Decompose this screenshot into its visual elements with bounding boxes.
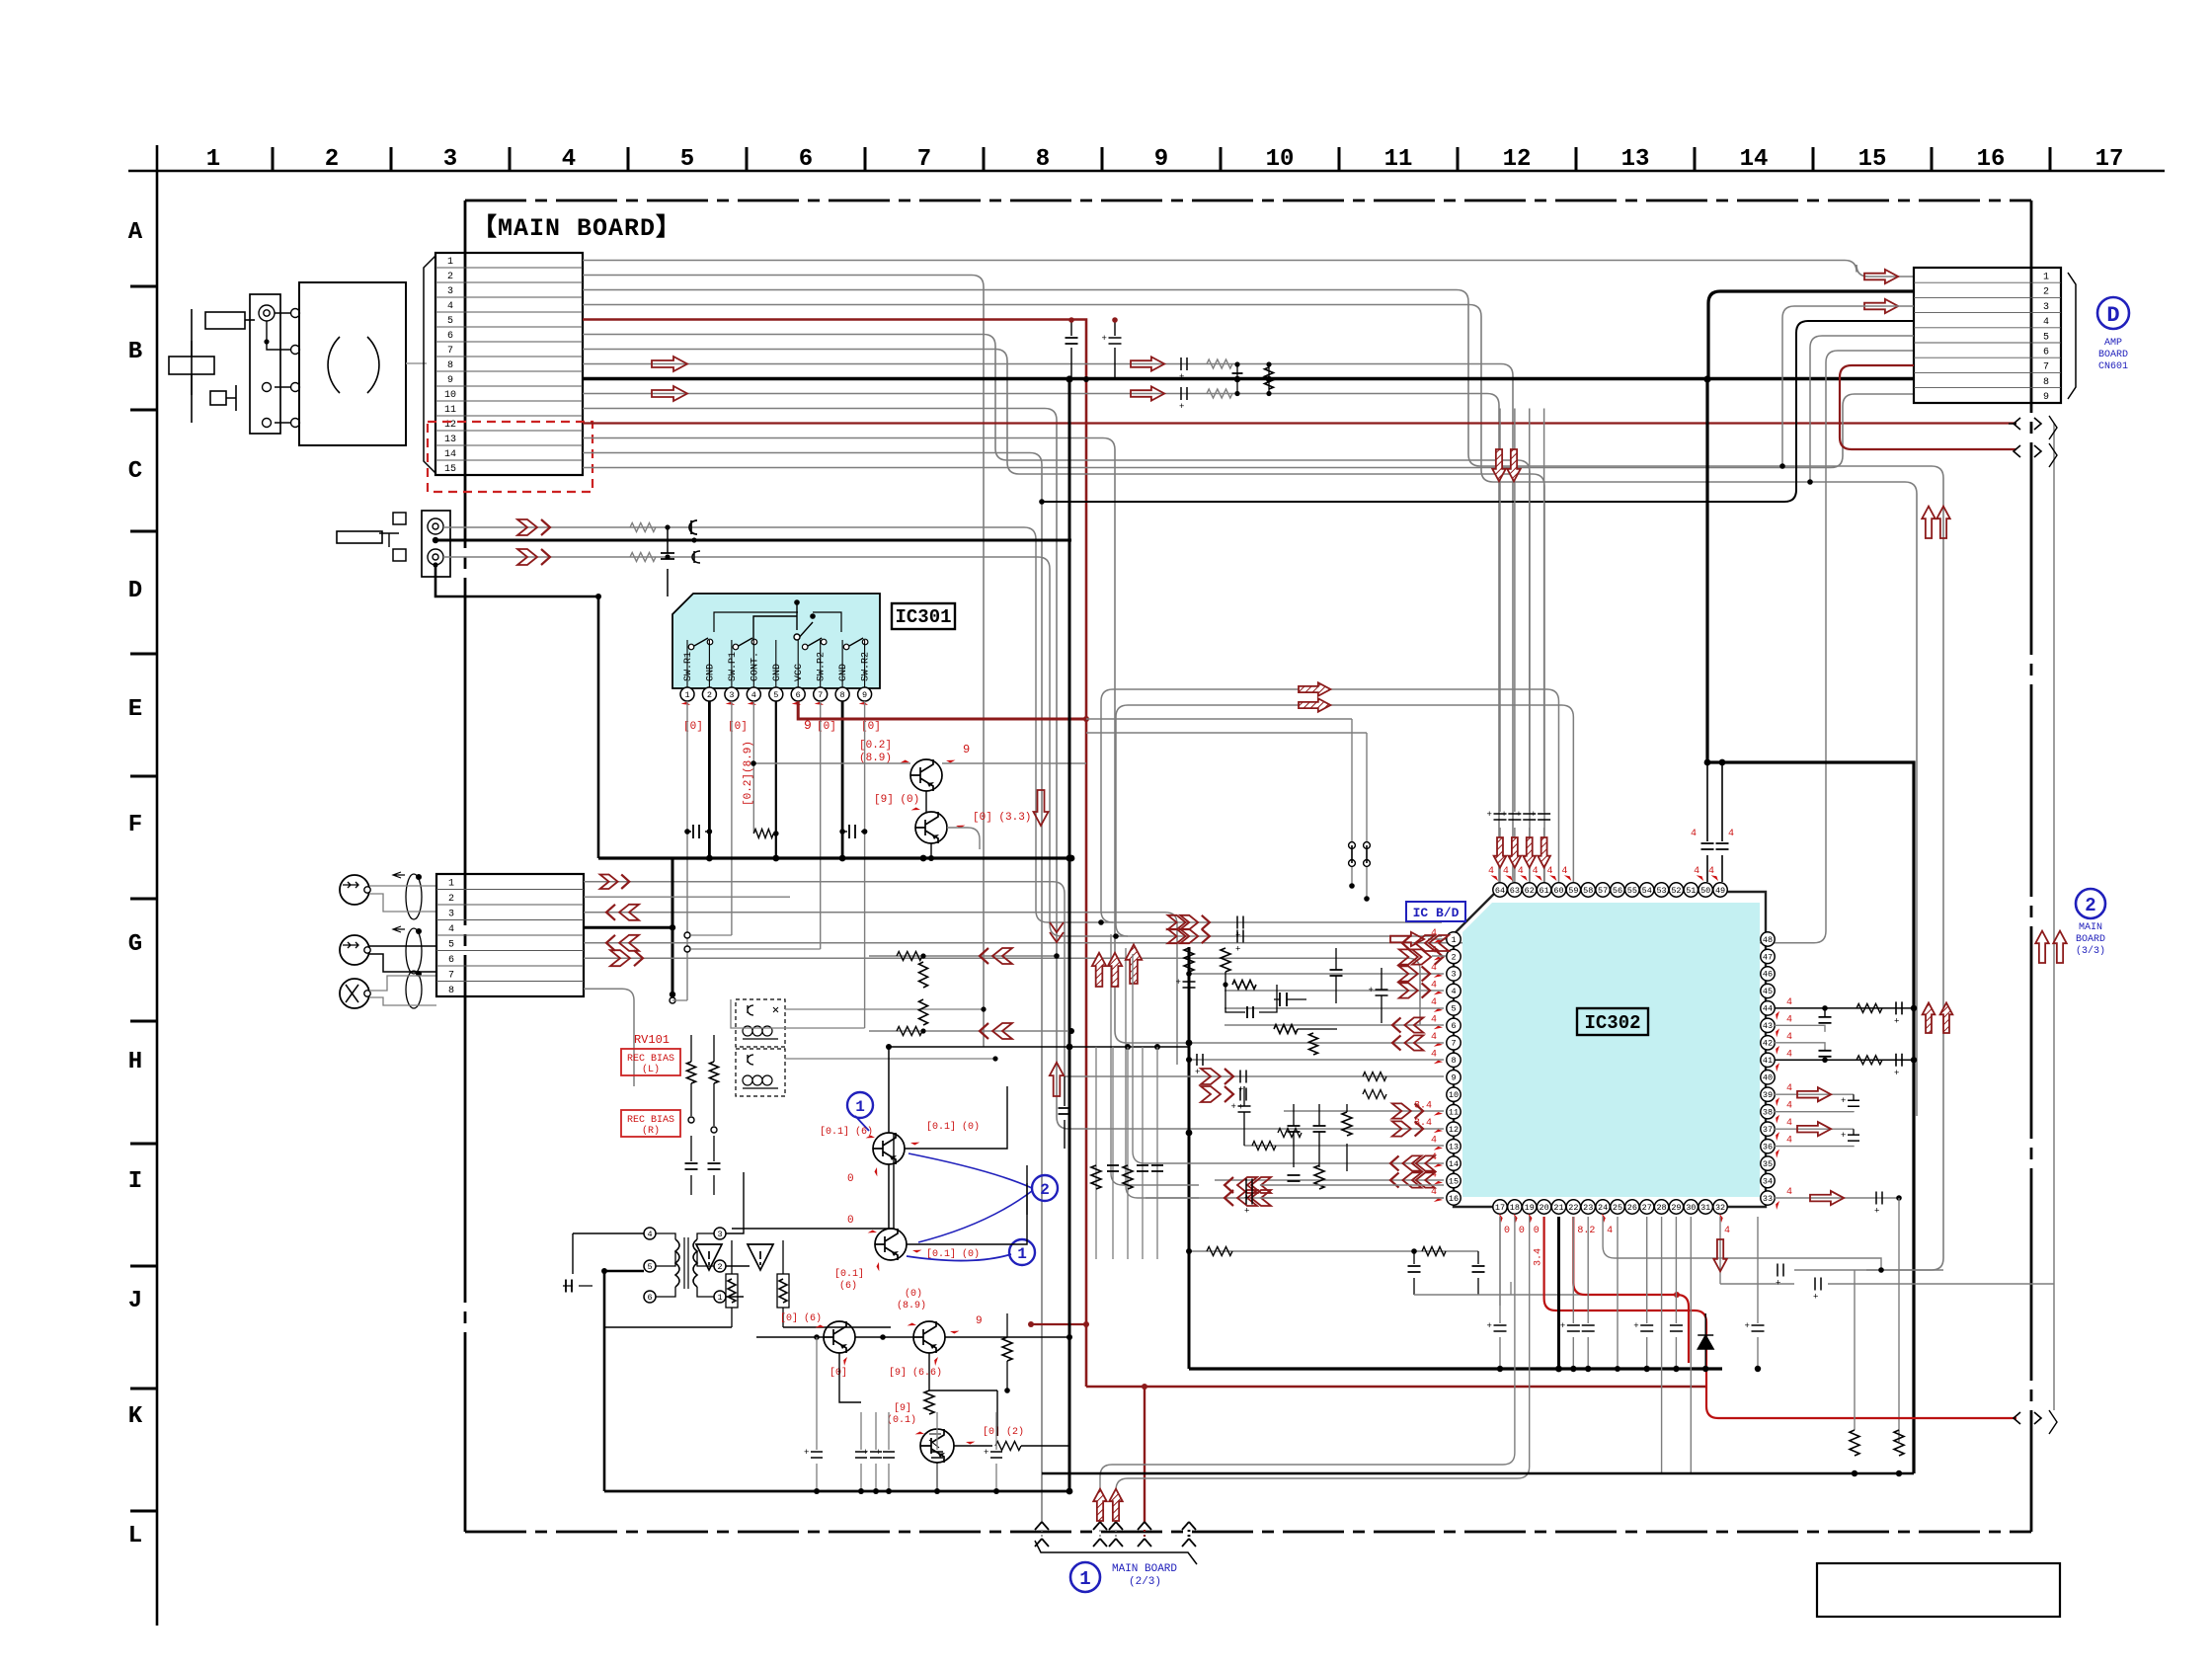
head ground drop bbox=[435, 565, 598, 858]
left chevrons row G right side bbox=[1402, 935, 1411, 951]
gray drops pins 25,28,30 bbox=[1617, 1217, 1619, 1369]
left network resistors/caps cluster rows G-H bbox=[1184, 948, 1194, 972]
red hatched up arrows at border bbox=[1093, 1489, 1107, 1521]
svg-text:A: A bbox=[128, 219, 143, 246]
svg-text:D: D bbox=[128, 578, 142, 604]
svg-text:4: 4 bbox=[1431, 1187, 1437, 1198]
thick vertical pin21 to ground bus bbox=[1557, 1217, 1560, 1369]
svg-text:3: 3 bbox=[447, 286, 453, 297]
caps mid cluster bbox=[1280, 993, 1287, 1006]
svg-text:+: + bbox=[1487, 810, 1492, 820]
svg-text:[0.1]: [0.1] bbox=[834, 1268, 864, 1280]
red wire into CN601 pin7 from edge link bbox=[1840, 365, 2016, 449]
board edge link symbols (AMP pin7 net) bbox=[2014, 445, 2041, 457]
pin33 arrow + cap to gray riser bbox=[1775, 1197, 1899, 1199]
svg-text:46: 46 bbox=[1763, 970, 1773, 980]
svg-text:+: + bbox=[1179, 372, 1184, 382]
T301 right connections bbox=[726, 1172, 750, 1297]
transistor Q1 upper bbox=[873, 1133, 905, 1164]
ruler column numbers bbox=[206, 146, 2124, 173]
svg-text:[0]: [0] bbox=[817, 721, 836, 733]
svg-text:[0] (2): [0] (2) bbox=[983, 1426, 1024, 1438]
svg-text:(3/3): (3/3) bbox=[2076, 945, 2105, 957]
left chevron arrows going to bottom loop bbox=[1224, 1177, 1233, 1193]
svg-text:[0.2]: [0.2] bbox=[859, 740, 892, 752]
lower right ground bus bbox=[1042, 1472, 1914, 1475]
IC301 pin value annotations (red) bbox=[681, 700, 690, 709]
hatched up arrows G row bbox=[1092, 953, 1106, 987]
shield cable symbol 2 bbox=[406, 928, 422, 974]
ruler row ticks bbox=[130, 286, 157, 1511]
wire CN pin10 to IC302 pin64 riser bbox=[583, 394, 1499, 883]
hatched right arrows on F-row lines bbox=[1299, 682, 1330, 696]
transistor Q4 bbox=[913, 1321, 945, 1353]
svg-text:(0): (0) bbox=[905, 1288, 922, 1300]
svg-text:+: + bbox=[804, 1448, 809, 1458]
cassette mechanism: erase head symbol bbox=[191, 309, 193, 423]
svg-text:7: 7 bbox=[2043, 362, 2049, 373]
IC302 red pin voltage marks top bbox=[1488, 866, 1718, 883]
feedback loop wires left of IC302 bbox=[1111, 934, 1199, 1185]
ruler column ticks bbox=[273, 147, 2050, 171]
svg-text:22: 22 bbox=[1568, 1203, 1578, 1213]
I-row network into pins 11-16 bbox=[1284, 1110, 1444, 1112]
svg-text:29: 29 bbox=[1671, 1203, 1681, 1213]
IC301 VCC red feed bbox=[798, 701, 1086, 719]
pin39 arrow + cap to pin38 bbox=[1775, 1093, 1854, 1095]
svg-text:[0.1] (0): [0.1] (0) bbox=[926, 1248, 980, 1260]
svg-text:4: 4 bbox=[1724, 1226, 1730, 1236]
transistor Q302 (digital) bbox=[915, 812, 947, 843]
svg-text:6: 6 bbox=[799, 146, 813, 173]
svg-text:4: 4 bbox=[647, 1230, 652, 1239]
signal arrow on pin8 wire bbox=[652, 357, 687, 371]
svg-text:15: 15 bbox=[1858, 146, 1887, 173]
J-row RC ladder left of IC302 bbox=[1189, 1250, 1478, 1252]
svg-text:4: 4 bbox=[1786, 1083, 1792, 1094]
bias trimmers bbox=[687, 1062, 696, 1083]
svg-text:[0] (3.3): [0] (3.3) bbox=[973, 812, 1031, 824]
wire CN pin15 rising to AMP pin9 bbox=[583, 394, 1914, 468]
svg-text:4: 4 bbox=[1431, 1136, 1437, 1147]
svg-text:1: 1 bbox=[1017, 1245, 1027, 1263]
edge link for bright red net bbox=[2014, 1412, 2041, 1424]
svg-text:AMP: AMP bbox=[2104, 338, 2122, 349]
svg-text:34: 34 bbox=[1763, 1176, 1773, 1186]
vertical rail column right of block bbox=[1095, 1047, 1097, 1259]
svg-text:9: 9 bbox=[2043, 392, 2049, 403]
svg-text:5: 5 bbox=[2043, 332, 2049, 343]
svg-text:9: 9 bbox=[862, 690, 867, 700]
svg-text:2: 2 bbox=[2043, 287, 2049, 298]
8pin wires right bbox=[584, 882, 1065, 1076]
svg-text:[0.1] (0): [0.1] (0) bbox=[926, 1121, 980, 1133]
svg-text:7: 7 bbox=[447, 346, 453, 357]
svg-text:4: 4 bbox=[1431, 1049, 1437, 1060]
far right vertical bracket line bbox=[2053, 424, 2055, 1410]
svg-text:55: 55 bbox=[1627, 886, 1637, 896]
svg-text:37: 37 bbox=[1763, 1125, 1773, 1135]
svg-text:[0]: [0] bbox=[829, 1367, 847, 1379]
svg-text:32: 32 bbox=[1715, 1203, 1725, 1213]
svg-text:18: 18 bbox=[1510, 1203, 1520, 1213]
connector CN pin numbers bbox=[444, 257, 456, 475]
svg-text:4: 4 bbox=[751, 690, 756, 700]
svg-text:[0.1] (6): [0.1] (6) bbox=[820, 1126, 873, 1138]
red dashed service box around pins 12-15 bbox=[428, 422, 592, 492]
svg-text:15: 15 bbox=[444, 464, 456, 475]
svg-text:4: 4 bbox=[448, 924, 454, 935]
IC302 top pins 64..49 bbox=[1493, 883, 1727, 897]
svg-text:1: 1 bbox=[684, 690, 689, 700]
svg-text:IC301: IC301 bbox=[895, 606, 951, 628]
svg-text:5: 5 bbox=[1451, 1004, 1456, 1014]
svg-text:43: 43 bbox=[1763, 1021, 1773, 1031]
svg-text:42: 42 bbox=[1763, 1039, 1773, 1049]
svg-text:51: 51 bbox=[1686, 886, 1696, 896]
svg-text:+: + bbox=[984, 1448, 988, 1458]
svg-text:60: 60 bbox=[1553, 886, 1563, 896]
main board dash-dot border bbox=[465, 199, 2031, 202]
head connector left stubs bbox=[393, 513, 406, 524]
svg-text:13: 13 bbox=[444, 435, 456, 445]
svg-text:CONT.: CONT. bbox=[750, 652, 760, 681]
gray drop pin24 bbox=[1603, 1217, 1881, 1270]
cap pins 42-41 bbox=[1775, 1043, 1825, 1051]
svg-text:BOARD: BOARD bbox=[2098, 350, 2128, 360]
svg-text:+: + bbox=[1841, 1131, 1846, 1141]
svg-text:2: 2 bbox=[448, 894, 454, 905]
svg-text:9: 9 bbox=[963, 743, 970, 756]
blue circled 2 + MAIN BOARD (3/3) bbox=[2076, 889, 2105, 918]
svg-text:4: 4 bbox=[447, 301, 453, 312]
up arrows near right border G row bbox=[2053, 931, 2067, 963]
svg-text:REC BIAS: REC BIAS bbox=[627, 1115, 674, 1126]
hatched down arrows above IC302 pins 64-61 bbox=[1494, 837, 1507, 868]
svg-text:4: 4 bbox=[1431, 1014, 1437, 1025]
wire motor to CN bbox=[406, 362, 427, 364]
transformer T301 bbox=[675, 1239, 679, 1287]
surrounding wires Q1/Q2 block bbox=[889, 1047, 1189, 1133]
svg-text:+: + bbox=[1231, 1102, 1236, 1112]
svg-text:2: 2 bbox=[707, 690, 712, 700]
svg-text:2: 2 bbox=[717, 1262, 722, 1272]
IC302 ground bus bbox=[1189, 1367, 1722, 1370]
svg-text:6: 6 bbox=[1451, 1021, 1456, 1031]
F-row ground bus bbox=[598, 856, 1071, 859]
svg-text:9: 9 bbox=[447, 375, 453, 386]
AMP board connector CN601 bbox=[1914, 268, 2061, 403]
cap to bus from upper head wire bbox=[667, 527, 669, 596]
IC302 red pin voltage marks bottom bbox=[1496, 1214, 1730, 1266]
svg-text:(L): (L) bbox=[642, 1064, 660, 1075]
gray H line under IC302 w/ cap bbox=[1794, 1269, 1943, 1271]
svg-text:4: 4 bbox=[1691, 829, 1697, 839]
svg-text:【MAIN BOARD】: 【MAIN BOARD】 bbox=[472, 213, 681, 243]
RCA jack (unused, crossed) bbox=[340, 979, 369, 1008]
resistors to lower bus bbox=[1854, 1270, 1856, 1430]
bottom-left block frame wires bbox=[732, 1133, 894, 1229]
svg-text:33: 33 bbox=[1763, 1194, 1773, 1204]
svg-text:+: + bbox=[1776, 1279, 1780, 1289]
svg-text:VCC: VCC bbox=[794, 664, 805, 681]
svg-text:+: + bbox=[863, 1448, 868, 1458]
svg-text:GND: GND bbox=[705, 664, 716, 681]
svg-text:44: 44 bbox=[1763, 1004, 1773, 1014]
svg-text:14: 14 bbox=[444, 449, 456, 460]
blue D circle + AMP BOARD CN601 label bbox=[2097, 297, 2129, 329]
svg-text:4: 4 bbox=[1607, 1226, 1613, 1236]
peak filter transformer T2 (dashed) bbox=[736, 1049, 785, 1096]
shield cable symbol 3 bbox=[406, 971, 422, 1008]
svg-text:D: D bbox=[2106, 303, 2119, 328]
svg-text:+: + bbox=[1745, 1321, 1750, 1331]
board edge link symbols (CN pin12 net) bbox=[2009, 423, 2016, 425]
gray drop pin32 + down arrow bbox=[1719, 1217, 1721, 1284]
svg-text:+: + bbox=[1516, 810, 1521, 820]
RC network on head wires col6 bbox=[630, 523, 656, 532]
svg-text:SW.R2: SW.R2 bbox=[861, 652, 872, 681]
svg-text:4: 4 bbox=[1728, 829, 1734, 839]
svg-text:16: 16 bbox=[1977, 146, 2006, 173]
signal arrows on head wires bbox=[517, 519, 537, 535]
svg-text:CN601: CN601 bbox=[2098, 361, 2128, 372]
svg-text:MAIN: MAIN bbox=[2079, 922, 2102, 933]
warning triangle 1 bbox=[696, 1244, 722, 1270]
wire CN pin12 (dark red) to board edge connector bbox=[583, 422, 2016, 424]
junction dots on head wires bbox=[595, 594, 601, 599]
wire CN pin1 to AMP CN601 pin1 bbox=[583, 261, 1914, 278]
svg-text:7: 7 bbox=[818, 690, 823, 700]
svg-text:58: 58 bbox=[1583, 886, 1593, 896]
svg-text:B: B bbox=[128, 339, 142, 365]
svg-text:+: + bbox=[1894, 1016, 1899, 1026]
svg-text:2: 2 bbox=[447, 272, 453, 282]
head connector body bbox=[422, 511, 450, 577]
svg-text:2: 2 bbox=[325, 146, 339, 173]
svg-text:0: 0 bbox=[1519, 1226, 1525, 1236]
svg-text:10: 10 bbox=[444, 390, 456, 401]
svg-text:+: + bbox=[1813, 1293, 1818, 1303]
bright red net from IC302 pins 20/22 bbox=[1544, 1217, 2016, 1418]
pin44 RC to spine bbox=[1775, 1007, 1914, 1009]
svg-text:(R): (R) bbox=[642, 1125, 660, 1137]
svg-text:1: 1 bbox=[447, 257, 453, 268]
svg-text:+: + bbox=[1244, 1207, 1249, 1217]
svg-text:C: C bbox=[128, 458, 142, 485]
svg-text:16: 16 bbox=[1449, 1194, 1459, 1204]
wires into IC302 pins 60,59 from F-row lines bbox=[1101, 689, 1558, 911]
8pin pin4 thick to riser bbox=[584, 858, 672, 927]
outline up arrow on x1070 bbox=[1050, 1063, 1064, 1096]
svg-text:0: 0 bbox=[1504, 1226, 1510, 1236]
svg-text:39: 39 bbox=[1763, 1090, 1773, 1100]
svg-text:SW.P1: SW.P1 bbox=[728, 652, 739, 681]
RCA jack LINE IN R bbox=[340, 935, 369, 965]
svg-text:19: 19 bbox=[1525, 1203, 1535, 1213]
red vertical to bottom border bbox=[1144, 1387, 1145, 1522]
svg-text:+: + bbox=[1841, 1096, 1846, 1106]
wire CN pin14 down to board edge bbox=[583, 453, 1042, 1523]
svg-text:0: 0 bbox=[847, 1173, 854, 1185]
svg-text:[0]: [0] bbox=[683, 721, 703, 733]
hatched down arrows on risers row C bbox=[1492, 449, 1506, 481]
svg-text:REC BIAS: REC BIAS bbox=[627, 1054, 674, 1065]
IC302 right pins 48..33 bbox=[1761, 932, 1775, 1205]
svg-text:3: 3 bbox=[448, 910, 454, 920]
svg-text:6: 6 bbox=[796, 690, 801, 700]
svg-text:6: 6 bbox=[647, 1293, 652, 1303]
svg-text:SW.P2: SW.P2 bbox=[817, 652, 828, 681]
IC301 pin wires down bbox=[686, 701, 688, 1000]
dark red vertical x1100 junction dots bbox=[1083, 716, 1089, 722]
black line row D to AMP pin4 bbox=[1042, 321, 1914, 502]
svg-text:[9] (6.6): [9] (6.6) bbox=[889, 1367, 942, 1379]
wire into CN601 pin2 (thick from bus riser) bbox=[1708, 291, 1914, 379]
pin41 RC to spine bbox=[1775, 1059, 1914, 1061]
svg-text:SW.R1: SW.R1 bbox=[683, 652, 694, 681]
svg-text:3: 3 bbox=[729, 690, 734, 700]
svg-text:1: 1 bbox=[1079, 1568, 1090, 1590]
svg-text:H: H bbox=[128, 1049, 142, 1075]
wire CN pin11 descending in bundle bbox=[583, 409, 1444, 1130]
ruler left line bbox=[156, 145, 159, 1626]
svg-text:+: + bbox=[1501, 810, 1506, 820]
svg-text:13: 13 bbox=[1621, 146, 1650, 173]
gray line row G to IC302 area bbox=[584, 896, 790, 898]
boxed resistors (fusible) bbox=[726, 1274, 738, 1308]
svg-text:52: 52 bbox=[1671, 886, 1681, 896]
svg-text:BOARD: BOARD bbox=[2076, 934, 2105, 945]
vertical RC bridging rows B-C bbox=[1236, 364, 1238, 393]
svg-text:59: 59 bbox=[1568, 886, 1578, 896]
svg-text:4: 4 bbox=[1786, 1014, 1792, 1025]
IC B/D label bbox=[1406, 902, 1465, 921]
svg-text:14: 14 bbox=[1740, 146, 1769, 173]
svg-text:9: 9 bbox=[976, 1315, 983, 1327]
bottom brace bbox=[1035, 1541, 1197, 1564]
REC BIAS (L) adjust box bbox=[621, 1049, 680, 1075]
resistor between IC301 pins4-5 bbox=[753, 830, 773, 838]
svg-text:F: F bbox=[128, 812, 142, 838]
svg-text:7: 7 bbox=[917, 146, 931, 173]
svg-text:35: 35 bbox=[1763, 1159, 1773, 1169]
svg-text:23: 23 bbox=[1583, 1203, 1593, 1213]
svg-text:+: + bbox=[1894, 1069, 1899, 1078]
svg-text:3: 3 bbox=[443, 146, 457, 173]
IC302 red pin voltage marks left bbox=[1414, 928, 1443, 1205]
svg-text:+: + bbox=[1176, 978, 1181, 988]
wire CN pin6 via bundle to IC302 pin62 riser bbox=[583, 335, 1530, 883]
svg-text:+: + bbox=[1369, 986, 1374, 995]
svg-text:[0]: [0] bbox=[728, 721, 748, 733]
op IC301 body (tape switch IC) bbox=[672, 594, 880, 688]
svg-text:(8.9): (8.9) bbox=[859, 753, 892, 764]
major vertical bus x1204 bbox=[1188, 947, 1191, 1369]
svg-text:4: 4 bbox=[1786, 1136, 1792, 1147]
cap pair on mid wire bbox=[692, 551, 700, 563]
wire CN pin9 (thick audio common) to AMP pin8 bbox=[583, 377, 1914, 380]
svg-text:31: 31 bbox=[1700, 1203, 1710, 1213]
wire CN pin3 long route to right riser x1968 bbox=[583, 290, 1943, 1271]
svg-text:9: 9 bbox=[1451, 1073, 1456, 1083]
svg-text:4: 4 bbox=[1786, 1187, 1792, 1198]
wire CN601 pin5 riser down to C-row line bbox=[1810, 336, 1914, 482]
title block bbox=[1817, 1563, 2060, 1617]
jack wires to connector bbox=[369, 885, 436, 887]
svg-text:[9] (0): [9] (0) bbox=[874, 794, 919, 806]
wires transistor row bbox=[756, 1336, 824, 1338]
svg-text:48: 48 bbox=[1763, 935, 1773, 945]
svg-text:10: 10 bbox=[1449, 1090, 1459, 1100]
wires pins 18,19 heading left-down bbox=[1100, 1217, 1515, 1522]
transistor Q5 (digital w/ resistors) bbox=[920, 1429, 954, 1463]
svg-text:4: 4 bbox=[1786, 1032, 1792, 1043]
svg-text:G: G bbox=[128, 931, 142, 958]
coupling caps row H bbox=[691, 1136, 714, 1195]
blue circled 1 (lower) bbox=[1009, 1239, 1035, 1265]
svg-text:6: 6 bbox=[447, 331, 453, 342]
svg-text:47: 47 bbox=[1763, 952, 1773, 962]
svg-text:K: K bbox=[128, 1403, 143, 1430]
svg-text:20: 20 bbox=[1540, 1203, 1549, 1213]
svg-text:64: 64 bbox=[1495, 886, 1505, 896]
IC301 label box bbox=[892, 603, 955, 629]
svg-text:4: 4 bbox=[1786, 1049, 1792, 1060]
jumper links left of IC302 top bbox=[1351, 719, 1353, 886]
decoupling caps on B+ line bbox=[1070, 320, 1072, 379]
svg-text:+: + bbox=[1238, 1103, 1243, 1113]
svg-text:56: 56 bbox=[1613, 886, 1622, 896]
wire CN pin13 via bundle down to G row bbox=[583, 438, 1224, 1044]
connector CN bevel bracket bbox=[424, 256, 435, 473]
svg-text:1: 1 bbox=[855, 1098, 865, 1116]
svg-text:8: 8 bbox=[2043, 377, 2049, 388]
transistor Q301 (digital) bbox=[910, 759, 942, 791]
svg-text:4: 4 bbox=[1431, 1032, 1437, 1043]
wire CN pin4 long route to right riser x1953 bbox=[583, 305, 1917, 1117]
dark red down arrow F row bbox=[1034, 790, 1049, 826]
ruler row letters bbox=[128, 219, 143, 1549]
svg-text:MAIN BOARD: MAIN BOARD bbox=[1112, 1563, 1177, 1575]
IC301 internal switch contacts bbox=[688, 638, 868, 650]
svg-text:41: 41 bbox=[1763, 1056, 1773, 1066]
connector CN (15-pin) body bbox=[435, 253, 583, 475]
svg-text:4: 4 bbox=[1786, 997, 1792, 1008]
svg-text:(0.1): (0.1) bbox=[887, 1414, 916, 1426]
cap between IC301 pins8-9 bbox=[842, 831, 847, 833]
svg-text:0: 0 bbox=[847, 1215, 854, 1227]
caps above IC302 pins 50,49 bbox=[1706, 762, 1708, 882]
svg-text:GND: GND bbox=[772, 664, 783, 681]
svg-text:13: 13 bbox=[1449, 1142, 1459, 1152]
caps above IC302 pins 64-61 bbox=[1487, 409, 1551, 883]
warning triangle 2 bbox=[748, 1244, 773, 1270]
svg-text:3: 3 bbox=[1451, 970, 1456, 980]
svg-text:5: 5 bbox=[447, 316, 453, 327]
svg-text:61: 61 bbox=[1540, 886, 1549, 896]
svg-text:12: 12 bbox=[1503, 146, 1532, 173]
svg-text:+: + bbox=[1874, 1207, 1879, 1217]
diode to ground bus bbox=[1704, 1313, 1706, 1369]
ruler top line bbox=[128, 170, 2165, 173]
svg-text:4: 4 bbox=[1786, 1101, 1792, 1112]
svg-text:6: 6 bbox=[448, 955, 454, 966]
svg-text:[0.2](8.9): [0.2](8.9) bbox=[743, 741, 754, 806]
caps under IC302 to ground bus bbox=[1499, 1217, 1501, 1369]
blue circled 1 bottom bbox=[1070, 1562, 1100, 1592]
svg-text:28: 28 bbox=[1656, 1203, 1666, 1213]
